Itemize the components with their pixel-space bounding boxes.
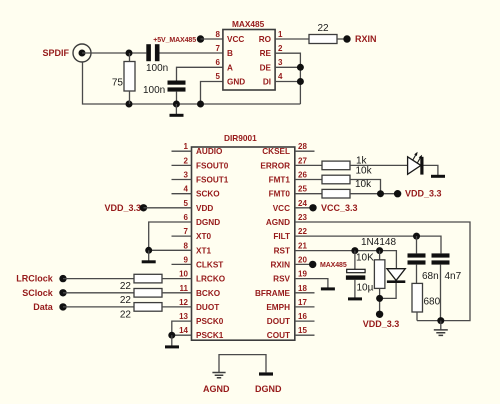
- ground symbol 10u: [348, 297, 362, 300]
- wire +5V to pin8 VCC: [201, 38, 223, 40]
- svg-text:SPDIF: SPDIF: [42, 48, 69, 58]
- svg-text:XT1: XT1: [196, 246, 211, 255]
- svg-text:VCC: VCC: [227, 35, 244, 44]
- svg-text:1: 1: [184, 142, 189, 151]
- pin 27 ERROR wire: [295, 164, 322, 166]
- svg-text:MAX485: MAX485: [320, 262, 347, 269]
- pin 22 FILT wire: [295, 236, 441, 253]
- resistor R4 22: [134, 289, 162, 298]
- node junction R-bottom: [126, 101, 133, 108]
- resistor R3 22: [134, 274, 162, 283]
- svg-text:B: B: [227, 49, 233, 58]
- supply VDD_3.3 bottom: [376, 311, 383, 318]
- wire R8 to VDD_3.3: [350, 193, 398, 195]
- svg-text:7: 7: [184, 227, 189, 236]
- wire R2 to RXIN: [337, 38, 347, 40]
- svg-text:21: 21: [298, 242, 307, 251]
- node junction R-top: [126, 50, 133, 57]
- svg-text:12: 12: [179, 298, 188, 307]
- wire C1 to pin7 B: [160, 52, 223, 54]
- svg-text:1: 1: [278, 30, 283, 39]
- svg-text:17: 17: [298, 298, 307, 307]
- supply VCC_3.3: [309, 204, 316, 211]
- resistor R6 1k: [322, 161, 350, 170]
- svg-text:15: 15: [298, 326, 307, 335]
- diode D2 1N4148: [387, 269, 405, 283]
- wire C2 to ground bus: [176, 92, 178, 104]
- node junction RST-10K: [376, 247, 383, 254]
- svg-text:Data: Data: [33, 302, 54, 312]
- svg-text:9: 9: [184, 255, 189, 264]
- pin 5 VDD wire: [144, 207, 192, 209]
- wire pin5 GND to bus: [201, 82, 223, 105]
- pin 15 COUT stub: [295, 334, 315, 336]
- svg-text:22: 22: [120, 295, 132, 306]
- svg-text:BCKO: BCKO: [196, 289, 221, 298]
- ground symbol XT1: [148, 250, 150, 260]
- pin 1 AUDIO stub: [172, 150, 192, 152]
- pin 3 FSOUT1 stub: [172, 179, 192, 181]
- pin 21 RST wire: [295, 251, 397, 269]
- svg-text:VDD: VDD: [196, 204, 213, 213]
- svg-text:20: 20: [298, 255, 307, 264]
- svg-text:75: 75: [112, 78, 124, 89]
- svg-text:DUOT: DUOT: [196, 303, 219, 312]
- svg-text:AGND: AGND: [266, 218, 290, 227]
- svg-text:4: 4: [278, 72, 283, 81]
- svg-text:PSCK0: PSCK0: [196, 317, 224, 326]
- svg-text:GND: GND: [227, 78, 245, 87]
- supply VDD_3.3 right: [394, 190, 401, 197]
- svg-text:DGND: DGND: [196, 218, 220, 227]
- svg-text:LRClock: LRClock: [16, 274, 54, 284]
- svg-text:25: 25: [298, 185, 307, 194]
- svg-text:ERROR: ERROR: [260, 161, 290, 170]
- svg-text:DE: DE: [260, 63, 272, 72]
- svg-text:14: 14: [179, 326, 188, 335]
- svg-text:BFRAME: BFRAME: [255, 289, 291, 298]
- pin 2 FSOUT0 stub: [172, 164, 192, 166]
- pin 13 PSCK0 wire: [172, 321, 192, 335]
- svg-text:10µ: 10µ: [357, 282, 374, 293]
- capacitor C1 100n (series): [146, 44, 151, 61]
- svg-text:68n: 68n: [422, 271, 439, 282]
- svg-text:4: 4: [184, 185, 189, 194]
- svg-text:FSOUT0: FSOUT0: [196, 161, 229, 170]
- svg-text:6: 6: [184, 213, 189, 222]
- svg-text:8: 8: [216, 30, 221, 39]
- svg-text:VDD_3.3: VDD_3.3: [405, 189, 442, 199]
- resistor R8 10k: [322, 189, 350, 198]
- ground symbol LED: [431, 175, 445, 178]
- svg-text:4n7: 4n7: [445, 271, 462, 282]
- svg-text:100n: 100n: [146, 63, 168, 74]
- svg-text:26: 26: [298, 171, 307, 180]
- svg-text:100n: 100n: [143, 85, 165, 96]
- pin 28 CKSEL stub: [295, 150, 315, 152]
- node junction GND-bus: [197, 101, 204, 108]
- node junction FILT-68n: [413, 233, 420, 240]
- LED D1: [408, 152, 424, 175]
- wire LED to ground: [424, 165, 438, 175]
- svg-text:FILT: FILT: [273, 232, 290, 241]
- AGND-DGND tie wire: [219, 355, 266, 373]
- svg-text:22: 22: [298, 227, 307, 236]
- wire 10u to ground: [354, 280, 356, 298]
- svg-text:MAX485: MAX485: [232, 19, 265, 29]
- svg-text:28: 28: [298, 142, 307, 151]
- wire Data to R5: [63, 306, 134, 308]
- pin 25 FMT0 wire: [295, 193, 322, 195]
- svg-text:COUT: COUT: [267, 331, 290, 340]
- wire R9 to AGND net: [416, 312, 418, 321]
- resistor R1 75: [124, 62, 135, 92]
- wire RE DE DI tie to ground bus: [275, 53, 300, 104]
- pin 18 BFRAME stub: [295, 292, 315, 294]
- op-amp U1 MAX485 body: [223, 30, 275, 91]
- svg-text:RXIN: RXIN: [355, 34, 377, 44]
- wire R6 to LED: [350, 164, 408, 166]
- pin 14 PSCK1 wire: [172, 334, 192, 336]
- IC U2 DIR9001 body: [192, 147, 295, 340]
- svg-text:AGND: AGND: [203, 384, 230, 394]
- wire R5 to pin12: [162, 306, 192, 308]
- svg-text:10: 10: [179, 270, 188, 279]
- earth ground AGND: [212, 373, 225, 378]
- svg-text:RST: RST: [274, 247, 290, 256]
- svg-text:AUDIO: AUDIO: [196, 147, 223, 156]
- node junction FMT: [377, 190, 384, 197]
- node junction DI: [297, 78, 304, 85]
- svg-text:+5V_MAX485: +5V_MAX485: [153, 37, 196, 44]
- svg-text:EMPH: EMPH: [266, 303, 290, 312]
- connector X1 SPDIF: [73, 44, 91, 62]
- node junction 10K-diode: [376, 295, 383, 302]
- svg-text:RSV: RSV: [273, 275, 290, 284]
- svg-text:10k: 10k: [355, 179, 372, 190]
- svg-text:3: 3: [278, 58, 283, 67]
- svg-text:FMT1: FMT1: [269, 176, 291, 185]
- svg-text:LRCKO: LRCKO: [196, 275, 226, 284]
- resistor R2 22: [309, 35, 337, 44]
- svg-text:CLKST: CLKST: [196, 260, 223, 269]
- wire 4n7 to AGND net: [440, 265, 442, 321]
- svg-text:RXIN: RXIN: [270, 260, 290, 269]
- svg-text:6: 6: [216, 58, 221, 67]
- svg-text:5: 5: [216, 72, 221, 81]
- svg-text:2: 2: [278, 44, 283, 53]
- svg-text:7: 7: [216, 44, 221, 53]
- svg-text:22: 22: [317, 23, 329, 34]
- pin 19 RSV wire: [295, 279, 328, 288]
- svg-text:27: 27: [298, 156, 307, 165]
- net MAX485: [309, 261, 316, 268]
- earth ground AGND net: [440, 321, 442, 330]
- wire R7 down to pin25 net: [350, 180, 381, 194]
- pin 9 CLKST stub: [172, 263, 192, 265]
- svg-text:PSCK1: PSCK1: [196, 331, 224, 340]
- svg-text:16: 16: [298, 312, 307, 321]
- svg-text:1N4148: 1N4148: [361, 237, 396, 248]
- svg-text:DOUT: DOUT: [267, 317, 290, 326]
- pin 4 SCKO stub: [172, 193, 192, 195]
- node junction C2-bus: [173, 101, 180, 108]
- svg-text:19: 19: [298, 270, 307, 279]
- node junction XT1-DGND: [145, 247, 152, 254]
- wire FILT junction down to 68n: [416, 236, 418, 253]
- node junction RST-10u: [351, 247, 358, 254]
- svg-text:SClock: SClock: [22, 288, 54, 298]
- svg-text:10k: 10k: [356, 166, 373, 177]
- pin 16 DOUT stub: [295, 320, 315, 322]
- svg-text:11: 11: [180, 284, 189, 293]
- wire SClock to R4: [63, 292, 134, 294]
- pin 20 RXIN wire: [295, 263, 313, 265]
- ground DGND: [259, 372, 273, 375]
- svg-text:DIR9001: DIR9001: [224, 133, 257, 143]
- resistor R5 22: [134, 303, 162, 312]
- node RXIN: [343, 35, 350, 42]
- pin 24 VCC wire: [295, 207, 313, 209]
- svg-text:13: 13: [179, 312, 188, 321]
- svg-text:DGND: DGND: [255, 384, 282, 394]
- svg-text:XT0: XT0: [196, 232, 211, 241]
- node junction PSCK: [168, 332, 175, 339]
- wire SPDIF to C1: [82, 52, 146, 54]
- wire R4 to pin11: [162, 292, 192, 294]
- capacitor C6 4n7: [432, 253, 450, 257]
- svg-text:RE: RE: [260, 49, 272, 58]
- svg-text:18: 18: [298, 284, 307, 293]
- svg-text:SCKO: SCKO: [196, 190, 220, 199]
- svg-text:FMT0: FMT0: [269, 190, 291, 199]
- svg-text:10K: 10K: [356, 253, 374, 264]
- svg-text:DI: DI: [263, 78, 271, 87]
- svg-text:23: 23: [298, 213, 307, 222]
- capacitor C5 68n: [408, 253, 426, 257]
- ground symbol under bus: [175, 104, 177, 114]
- svg-text:VCC: VCC: [273, 204, 290, 213]
- resistor R10 10K: [379, 251, 381, 260]
- pin 8 XT1 wire: [149, 249, 192, 251]
- svg-text:VCC_3.3: VCC_3.3: [321, 203, 358, 213]
- wire SPDIF down to ground bus: [83, 63, 301, 105]
- pin 17 EMPH stub: [295, 306, 315, 308]
- svg-text:CKSEL: CKSEL: [262, 147, 290, 156]
- pin 23 AGND wire: [295, 222, 470, 321]
- svg-text:2: 2: [184, 156, 189, 165]
- resistor R9 680: [412, 283, 423, 312]
- svg-text:22: 22: [120, 309, 132, 320]
- wire pin6 A to C2: [177, 67, 223, 80]
- svg-text:A: A: [227, 63, 233, 72]
- svg-text:5: 5: [184, 199, 189, 208]
- pin 6 DGND wire: [149, 222, 192, 250]
- capacitor C7 10u polarized: [354, 251, 356, 270]
- svg-text:22: 22: [120, 281, 132, 292]
- wire 68n to R9: [416, 265, 418, 284]
- svg-text:3: 3: [184, 171, 189, 180]
- svg-text:8: 8: [184, 241, 189, 250]
- wire diode to 10K bottom: [380, 283, 397, 298]
- node junction AGND-earth: [437, 317, 444, 324]
- svg-text:VDD_3.3: VDD_3.3: [363, 319, 400, 329]
- svg-text:FSOUT1: FSOUT1: [196, 176, 229, 185]
- svg-text:RO: RO: [259, 35, 272, 44]
- pin 7 XT0 stub: [172, 235, 192, 237]
- svg-text:680: 680: [424, 297, 441, 308]
- svg-text:24: 24: [298, 199, 307, 208]
- wire LRClock to R3: [63, 278, 134, 280]
- ground symbol RSV: [321, 287, 335, 290]
- wire pin1 RO to R2: [275, 38, 309, 40]
- node junction DE: [297, 64, 304, 71]
- ground symbol PSCK: [171, 335, 173, 345]
- svg-text:VDD_3.3: VDD_3.3: [104, 203, 141, 213]
- pin 26 FMT1 wire: [295, 179, 322, 181]
- capacitor C2 100n (decoupling): [168, 81, 186, 85]
- wire R3 to pin10: [162, 278, 192, 280]
- resistor R7 10k: [322, 175, 350, 184]
